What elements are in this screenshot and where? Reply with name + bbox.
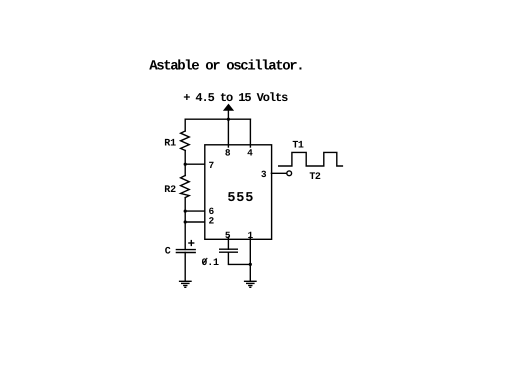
svg-text:C: C	[165, 247, 171, 258]
node: pin2 junction	[184, 220, 187, 223]
wire: pin 4 to rail	[249, 119, 251, 147]
node: pin6 junction	[184, 210, 187, 213]
svg-text:2: 2	[209, 216, 215, 227]
svg-text:0.1: 0.1	[201, 258, 219, 269]
resistor R1	[181, 131, 190, 151]
IC U1 555 body	[205, 145, 272, 240]
wire: pin 6	[185, 210, 205, 212]
ground (right)	[245, 281, 256, 287]
wire: pin 8 to rail	[227, 119, 229, 147]
svg-text:4: 4	[247, 147, 253, 158]
svg-text:R1: R1	[164, 139, 176, 150]
wire: pin 2	[185, 221, 205, 223]
wire: pin 5 down to bypass cap	[227, 237, 229, 249]
node: junction at pin1 net	[249, 263, 252, 266]
svg-text:8: 8	[225, 147, 231, 158]
node: output terminal circle	[287, 171, 292, 176]
resistor R2	[181, 176, 190, 198]
svg-text:R2: R2	[164, 185, 176, 196]
svg-text:Astable or oscillator.: Astable or oscillator.	[149, 59, 303, 75]
svg-text:3: 3	[261, 169, 267, 180]
wire: rail down to R1 top	[184, 119, 186, 131]
wire: R2 bottom down to capacitor C (through pin6/pin2 nodes)	[184, 198, 186, 250]
wire: R1 bottom to R2 top (through pin7 node)	[184, 151, 186, 176]
power supply arrow (V+)	[223, 104, 234, 111]
svg-text:+ 4.5 to 15 Volts: + 4.5 to 15 Volts	[183, 91, 288, 105]
node: pin7 junction	[184, 163, 187, 166]
node: supply junction	[227, 118, 230, 121]
slashed-zero stroke of 0.1	[203, 258, 207, 263]
wire: pin 7	[185, 163, 205, 165]
svg-text:T1: T1	[292, 140, 304, 151]
wire: top supply rail	[185, 118, 250, 120]
polarity + sign	[189, 241, 194, 246]
wire: bypass cap bottom to pin1 net	[228, 252, 250, 264]
wire: pin 1 down to ground	[249, 237, 251, 281]
capacitor C plates (timing cap)	[176, 249, 195, 251]
svg-text:7: 7	[209, 160, 215, 171]
svg-text:T2: T2	[309, 172, 321, 183]
capacitor C2 0.1 plates	[220, 248, 238, 250]
wire: cap C bottom to ground	[184, 253, 186, 282]
svg-text:555: 555	[227, 191, 254, 206]
ground (left)	[180, 281, 191, 287]
wire: arrow stem to top rail	[227, 111, 229, 120]
wire: pin 3 output	[271, 172, 286, 174]
waveform: output square wave	[279, 152, 343, 166]
